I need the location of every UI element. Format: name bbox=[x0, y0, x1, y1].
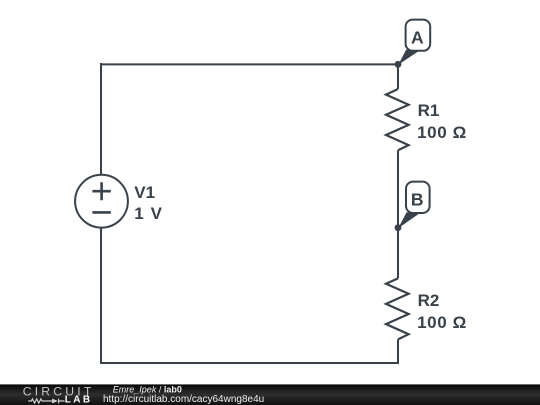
resistor R2 bbox=[386, 278, 409, 339]
svg-text:LAB: LAB bbox=[65, 395, 93, 405]
wire left upper bbox=[100, 63, 102, 175]
voltage source V1 bbox=[75, 175, 128, 228]
svg-text:R2: R2 bbox=[418, 291, 440, 310]
svg-text:R1: R1 bbox=[418, 101, 440, 120]
svg-text:1 V: 1 V bbox=[134, 204, 163, 223]
resistor R1 bbox=[386, 89, 409, 150]
wire bottom bbox=[101, 362, 399, 364]
node A junction dot bbox=[395, 61, 402, 68]
wire left lower bbox=[100, 228, 102, 364]
svg-text:100 Ω: 100 Ω bbox=[417, 123, 467, 142]
svg-text:V1: V1 bbox=[134, 183, 155, 202]
svg-text:http://circuitlab.com/cacy64wn: http://circuitlab.com/cacy64wng8e4u bbox=[103, 394, 264, 405]
node B flag bbox=[398, 182, 429, 229]
node A flag bbox=[398, 20, 430, 65]
wire right top lead bbox=[397, 64, 399, 89]
wire right bottom lead bbox=[397, 339, 399, 363]
wire right middle (node B net) bbox=[397, 150, 399, 278]
wire top (node A net) bbox=[101, 63, 398, 65]
svg-text:A: A bbox=[411, 28, 424, 48]
node B junction dot bbox=[395, 224, 402, 231]
svg-text:B: B bbox=[411, 189, 424, 209]
CircuitLab logo bbox=[23, 385, 95, 405]
svg-text:100 Ω: 100 Ω bbox=[417, 313, 467, 332]
